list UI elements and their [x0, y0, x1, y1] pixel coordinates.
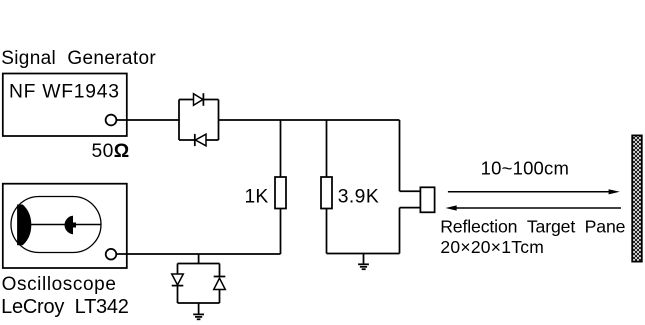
oscilloscope input terminal	[106, 249, 117, 260]
anti-parallel diode pair box wires	[179, 100, 219, 141]
CRT beam line	[31, 224, 101, 226]
right vertical wire lower segment	[399, 208, 401, 254]
junction stub to clamp diodes	[198, 254, 200, 264]
arrow from target (left)	[446, 205, 622, 210]
resistor R2 body	[321, 177, 332, 209]
resistor R1 body	[275, 177, 286, 209]
svg-text:LeCroy LT342: LeCroy LT342	[1, 296, 129, 318]
clamp diode box wires	[178, 264, 220, 304]
arrow to target (right)	[448, 189, 620, 194]
svg-text:Reflection Target Pane: Reflection Target Pane	[440, 216, 625, 236]
wire down to resistor 3.9K	[326, 120, 328, 177]
svg-text:Oscilloscope: Oscilloscope	[2, 274, 117, 295]
CRT electron gun (filled)	[65, 216, 75, 233]
output terminal of signal generator	[106, 115, 117, 126]
wire from 3.9K down to ground rail	[326, 209, 328, 254]
wire from 1K down to lower-left wire	[280, 209, 282, 255]
svg-text:NF WF1943: NF WF1943	[9, 82, 120, 103]
svg-text:10~100cm: 10~100cm	[481, 158, 570, 179]
signal generator box U1	[3, 74, 127, 137]
transducer X1 body	[420, 187, 434, 212]
diode D4 (right, pointing up)	[214, 277, 226, 290]
ground symbol GND1	[358, 254, 369, 270]
main top wire from diode pair to right vertical	[219, 119, 400, 121]
bottom rail of right loop	[327, 253, 400, 255]
transducer bottom lead	[400, 207, 421, 209]
diode D3 (left, pointing down)	[172, 274, 184, 286]
CRT tube outline	[11, 197, 101, 253]
diode D2 (bottom, pointing left)	[195, 134, 206, 146]
svg-text:1K: 1K	[245, 187, 269, 208]
wire from generator terminal to diode pair	[116, 119, 179, 121]
wire down to resistor 1K	[280, 120, 282, 177]
svg-text:Signal Generator: Signal Generator	[1, 48, 156, 69]
diode D1 (top, pointing right)	[194, 93, 204, 106]
right vertical wire upper segment	[399, 120, 401, 191]
svg-text:50Ω: 50Ω	[92, 141, 130, 162]
ground symbol GND2	[193, 303, 204, 319]
lower-left wire to oscilloscope	[116, 253, 280, 255]
transducer top lead	[400, 190, 421, 192]
svg-text:20×20×1Tcm: 20×20×1Tcm	[440, 237, 544, 257]
oscilloscope box U2	[3, 184, 127, 268]
svg-text:3.9K: 3.9K	[338, 187, 379, 208]
CRT screen (filled)	[18, 205, 31, 245]
reflection target pane (hatched wall)	[632, 135, 642, 261]
